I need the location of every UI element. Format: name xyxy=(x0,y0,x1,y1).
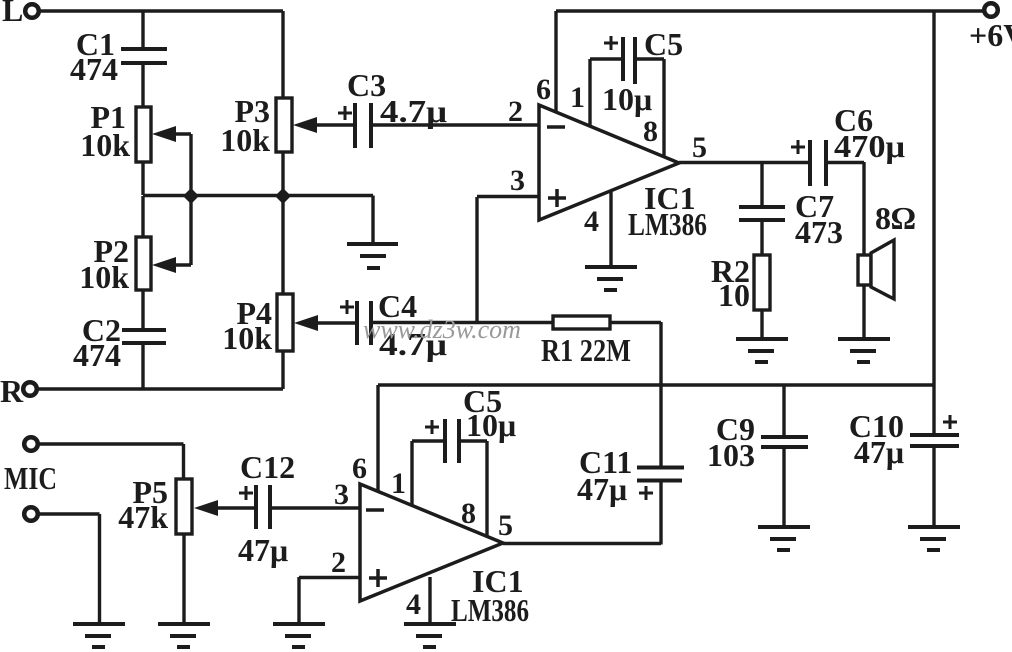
svg-text:LM386: LM386 xyxy=(451,592,529,628)
wiper arrow of P1 xyxy=(152,126,191,196)
svg-text:6: 6 xyxy=(352,452,367,485)
wire: C12 to pin 3 of IC1b xyxy=(272,506,360,509)
capacitor C1 xyxy=(70,26,167,87)
speaker 8 ohm xyxy=(858,200,916,299)
svg-text:47μ: 47μ xyxy=(577,471,627,507)
svg-text:3: 3 xyxy=(334,478,349,511)
svg-text:474: 474 xyxy=(73,337,121,373)
pin 4 wire xyxy=(584,191,611,267)
op-amp U2 (IC1 LM386 lower) xyxy=(360,484,529,628)
capacitor C4 xyxy=(340,288,447,362)
capacitor C3 xyxy=(338,67,447,148)
wire: R1 right end to feedback drop xyxy=(610,322,661,467)
wire: R2 to ground xyxy=(760,310,763,339)
terminal R xyxy=(0,373,37,409)
pin 5 output wire xyxy=(679,131,810,164)
wire: C7 to R2 xyxy=(760,221,763,255)
terminal L xyxy=(2,0,39,28)
node B (P3/P4 column junction dot) xyxy=(275,188,291,204)
wire: top rail down to P3 xyxy=(281,11,284,98)
ground (C9) xyxy=(758,527,810,550)
svg-text:2: 2 xyxy=(331,546,346,579)
wire: C6 to speaker xyxy=(828,162,864,255)
svg-text:C5: C5 xyxy=(644,26,683,62)
wiper arrow of P2 xyxy=(152,196,191,273)
svg-text:10μ: 10μ xyxy=(602,81,652,117)
wiper arrow of P4 xyxy=(294,315,357,331)
pin 2 wire to ground xyxy=(299,577,360,624)
wire: speaker to ground xyxy=(862,285,865,339)
svg-text:6: 6 xyxy=(536,73,551,106)
potentiometer P2 xyxy=(79,233,151,295)
pin 8 wire xyxy=(643,59,664,157)
wire: +6V drop on right xyxy=(932,11,935,385)
ground (MIC) xyxy=(73,624,125,647)
capacitor C7 xyxy=(739,188,843,250)
wire: +6V bottom supply rail xyxy=(378,383,934,386)
capacitor C5 (upper, pins 1-8) xyxy=(590,26,683,117)
potentiometer P4 xyxy=(222,294,293,356)
svg-text:47μ: 47μ xyxy=(854,434,904,470)
ground (P5) xyxy=(158,624,210,647)
svg-text:2: 2 xyxy=(508,95,523,128)
svg-text:8Ω: 8Ω xyxy=(875,200,916,236)
svg-text:R1 22M: R1 22M xyxy=(541,332,631,368)
wire: pin 3 of IC1a xyxy=(477,195,539,198)
ground (C10) xyxy=(908,527,960,550)
wire: MIC lower to ground xyxy=(38,514,100,624)
wire: junction row down to ground xyxy=(371,196,374,244)
terminal MIC upper xyxy=(24,437,38,451)
capacitor C9 xyxy=(707,385,808,527)
resistor R2 xyxy=(711,253,770,313)
ground (speaker) xyxy=(838,339,890,362)
svg-text:10: 10 xyxy=(718,277,750,313)
pin 8 wire xyxy=(461,441,487,536)
svg-text:47k: 47k xyxy=(118,499,168,535)
svg-text:10μ: 10μ xyxy=(466,407,516,443)
svg-text:+6V: +6V xyxy=(969,17,1012,53)
wire: junction row horizontal xyxy=(143,194,373,197)
capacitor C12 xyxy=(238,449,295,568)
svg-text:C12: C12 xyxy=(240,449,295,485)
pin 6 wire to +6V rail xyxy=(536,11,556,112)
svg-text:47μ: 47μ xyxy=(238,532,288,568)
op-amp U1 (IC1 LM386 upper) xyxy=(539,105,707,242)
svg-text:5: 5 xyxy=(692,131,707,164)
pin 4 wire xyxy=(406,577,430,624)
svg-text:3: 3 xyxy=(510,164,525,197)
capacitor C2 xyxy=(73,312,166,373)
wire: P1 bottom to junction row xyxy=(141,162,144,195)
svg-text:10k: 10k xyxy=(80,127,130,163)
ground (IC1b pin 2) xyxy=(273,624,325,647)
resistor R1 22M xyxy=(541,316,631,368)
wire: MIC upper to P5 xyxy=(38,444,184,479)
svg-text:L: L xyxy=(2,0,23,28)
svg-text:5: 5 xyxy=(498,509,513,542)
svg-text:1: 1 xyxy=(570,81,585,114)
svg-text:1: 1 xyxy=(391,467,406,500)
wire: L top rail to P3 column xyxy=(39,9,283,12)
svg-text:4: 4 xyxy=(406,588,421,621)
svg-text:MIC: MIC xyxy=(4,460,57,496)
wire: C11 to IC1b output xyxy=(503,481,661,545)
svg-text:R: R xyxy=(0,373,24,409)
pin 1 wire xyxy=(391,441,412,505)
wire: R bottom rail xyxy=(37,387,283,390)
wiper arrow of P5 xyxy=(194,500,254,516)
potentiometer P3 xyxy=(220,93,292,158)
wire: C1 to P1 xyxy=(141,65,144,107)
wire: P5 bottom to ground xyxy=(182,534,185,624)
svg-text:103: 103 xyxy=(707,437,755,473)
pin 1 wire xyxy=(570,59,590,126)
svg-text:10k: 10k xyxy=(222,320,272,356)
svg-text:LM386: LM386 xyxy=(628,206,707,242)
wire: C2 to R rail xyxy=(141,344,144,389)
capacitor C10 xyxy=(849,385,959,527)
ground (IC1b pin 4) xyxy=(404,624,456,647)
potentiometer P5 xyxy=(118,474,192,535)
svg-text:8: 8 xyxy=(643,115,658,148)
capacitor C5 (lower, pins 1-8) xyxy=(412,383,516,463)
node A (P1/P2 wiper junction dot) xyxy=(183,188,199,204)
wire: P2 bottom to C2 xyxy=(141,290,144,330)
potentiometer P1 xyxy=(80,99,151,163)
ground (R2) xyxy=(736,339,788,362)
wire: C1 branch down from top rail xyxy=(141,11,144,47)
svg-text:10k: 10k xyxy=(79,259,129,295)
svg-text:8: 8 xyxy=(461,497,476,530)
svg-text:474: 474 xyxy=(70,51,118,87)
wire: C7 branch from output xyxy=(760,162,763,207)
terminal +6V xyxy=(969,3,1012,53)
wire: junction to P2 xyxy=(141,196,144,237)
svg-text:473: 473 xyxy=(795,214,843,250)
wiper arrow of P3 xyxy=(293,117,354,133)
wire: +6V top rail xyxy=(556,9,984,12)
pin 6 wire to supply rail xyxy=(352,385,378,492)
wire: C3 to pin 2 of IC1a xyxy=(373,123,539,126)
wire: P3 bottom through junction to P4 xyxy=(281,152,284,294)
svg-text:4: 4 xyxy=(584,205,599,238)
wire: C4 to R1 left end xyxy=(373,321,553,324)
ground (input bias ground) xyxy=(347,244,398,268)
wire: pin 3 drop to feedback line xyxy=(475,197,478,322)
svg-text:470μ: 470μ xyxy=(834,128,905,164)
wire: P4 bottom to R rail xyxy=(281,351,284,389)
ground (IC1a pin 4) xyxy=(585,267,637,290)
capacitor C6 xyxy=(791,102,905,186)
capacitor C11 xyxy=(577,444,684,507)
terminal MIC lower xyxy=(24,507,38,521)
svg-text:www.dz3w.com: www.dz3w.com xyxy=(363,315,521,344)
svg-text:10k: 10k xyxy=(220,122,270,158)
